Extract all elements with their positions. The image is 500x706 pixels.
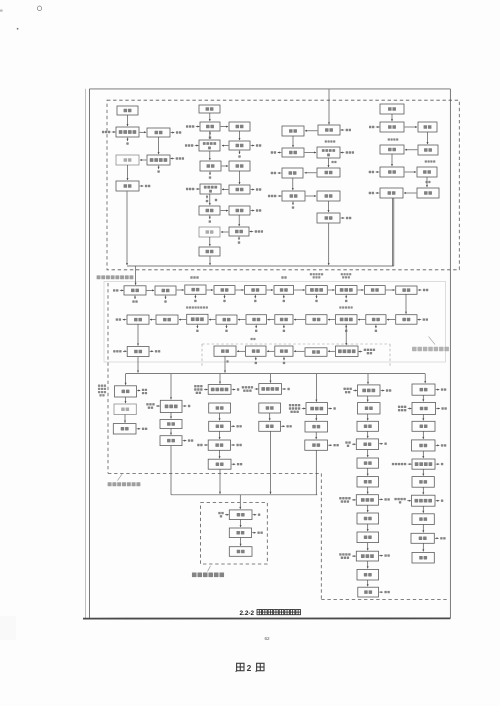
svg-text:2.2-2: 2.2-2 [240, 610, 255, 617]
svg-text:2: 2 [247, 663, 252, 673]
svg-text:62: 62 [265, 636, 271, 641]
